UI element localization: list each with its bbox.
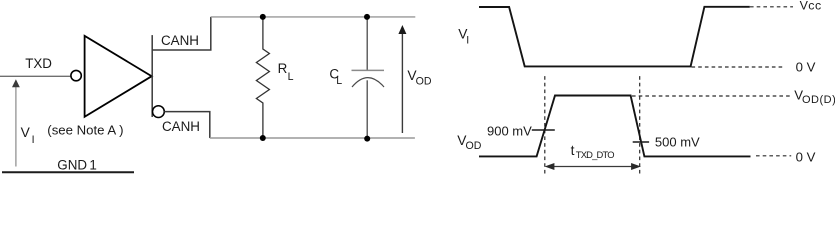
output bubble xyxy=(153,106,165,118)
label t_TXD_DTO xyxy=(571,143,615,160)
svg-text:OD: OD xyxy=(466,140,482,152)
svg-text:Vcc: Vcc xyxy=(800,0,822,13)
input bubble xyxy=(71,70,81,80)
dashed level Vcc xyxy=(750,6,793,8)
svg-text:L: L xyxy=(288,71,294,83)
wire driver output stem xyxy=(151,35,153,117)
svg-text:1: 1 xyxy=(89,157,96,172)
svg-text:CANH: CANH xyxy=(161,33,199,48)
node junction dot RL bottom xyxy=(260,135,266,141)
tick 900 mV xyxy=(532,129,555,131)
svg-text:GND: GND xyxy=(57,157,87,172)
label V_I waveform xyxy=(458,27,469,47)
svg-text:0 V: 0 V xyxy=(796,149,816,164)
wire CANH top xyxy=(152,17,211,50)
dashed vertical marker right xyxy=(639,76,641,175)
svg-text:CANH: CANH xyxy=(162,119,200,134)
node V_I arrow xyxy=(12,79,20,166)
svg-text:0 V: 0 V xyxy=(796,59,816,74)
waveform V_OD trace xyxy=(479,96,751,157)
dashed vertical marker left xyxy=(544,76,546,175)
node junction dot CL top xyxy=(364,14,370,20)
svg-text:TXD_DTO: TXD_DTO xyxy=(576,149,614,160)
svg-text:OD(D): OD(D) xyxy=(802,94,835,106)
svg-text:TXD: TXD xyxy=(25,56,52,71)
node junction dot CL bottom xyxy=(364,136,370,142)
dashed level 0V for V_OD xyxy=(756,155,791,157)
wire bottom rail xyxy=(210,137,415,139)
label V_OD(D) xyxy=(794,88,835,107)
svg-text:R: R xyxy=(278,61,288,76)
svg-text:(see Note A ): (see Note A ) xyxy=(47,122,123,137)
label V_OD waveform xyxy=(457,133,482,152)
tick 500 mV xyxy=(633,141,649,143)
svg-text:t: t xyxy=(571,143,575,158)
svg-text:V: V xyxy=(21,125,31,140)
svg-text:500 mV: 500 mV xyxy=(655,135,700,150)
op-amp U1 driver triangle xyxy=(85,36,152,117)
label R_L xyxy=(278,61,294,83)
svg-text:L: L xyxy=(336,75,342,87)
label V_I xyxy=(21,125,35,146)
wire TXD input xyxy=(0,75,70,77)
arrow t_TXD_DTO span xyxy=(545,163,641,170)
svg-text:OD: OD xyxy=(416,75,432,87)
node V_OD measurement arrow xyxy=(398,25,406,133)
dashed level V_OD(D) xyxy=(632,95,790,97)
svg-text:I: I xyxy=(466,35,469,47)
dashed level 0V for V_I xyxy=(692,66,786,68)
svg-text:900 mV: 900 mV xyxy=(487,124,532,139)
label C_L xyxy=(329,67,342,88)
svg-text:I: I xyxy=(32,134,35,146)
resistor RL xyxy=(256,17,269,138)
wire CANH bottom xyxy=(164,112,210,138)
wire top rail xyxy=(211,16,415,18)
node junction dot RL top xyxy=(260,14,266,20)
capacitor CL xyxy=(352,17,385,139)
ground GND1 xyxy=(2,157,134,172)
label V_OD schematic xyxy=(407,68,431,87)
waveform V_I trace xyxy=(479,7,750,67)
